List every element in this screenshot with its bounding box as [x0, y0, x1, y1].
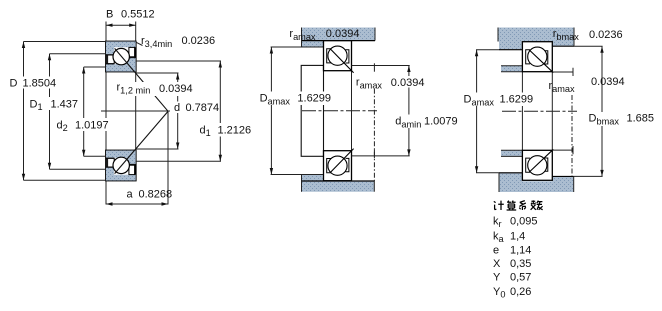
label plates middle — [257, 92, 332, 106]
dimension B — [106, 24, 136, 26]
ball (bottom section) — [113, 157, 129, 173]
svg-text:e: e — [493, 245, 499, 257]
svg-text:1.685: 1.685 — [627, 113, 655, 125]
svg-text:0,26: 0,26 — [510, 286, 531, 298]
svg-text:d: d — [174, 102, 180, 114]
dimension d2 — [84, 66, 106, 68]
centerline left view — [101, 110, 170, 112]
recess notch right (top section) — [129, 47, 135, 56]
label plates — [7, 77, 57, 89]
svg-text:1.6299: 1.6299 — [500, 94, 534, 106]
svg-text:0,35: 0,35 — [510, 258, 531, 270]
svg-text:D: D — [10, 78, 18, 90]
inner ring (top section) — [106, 58, 136, 72]
rb / ra ticks (right view) — [552, 71, 573, 73]
recess notch right (bottom section) — [129, 165, 135, 174]
svg-text:Y: Y — [493, 271, 501, 283]
top section outline — [106, 42, 136, 72]
housing band top — [302, 28, 376, 47]
ra leader (middle) — [373, 89, 375, 181]
header 计算系数 (drawn strokes) — [494, 200, 543, 210]
svg-text:0.8268: 0.8268 — [139, 189, 173, 201]
svg-text:0.5512: 0.5512 — [121, 9, 155, 21]
svg-text:0.7874: 0.7874 — [186, 102, 220, 114]
dimension Da max (right) — [476, 49, 522, 51]
shaft shoulder blocks (right view) — [501, 66, 522, 72]
bearing top section (middle) — [324, 41, 352, 71]
centerline middle view — [302, 110, 377, 112]
svg-text:1.8504: 1.8504 — [23, 78, 57, 90]
svg-text:0.0394: 0.0394 — [326, 28, 360, 40]
svg-text:1.0079: 1.0079 — [424, 116, 458, 128]
dimension D1 — [50, 53, 107, 55]
dimension Db max (right) — [574, 45, 603, 47]
ra fillet tick (middle) — [373, 63, 375, 71]
ball (top section) — [113, 48, 129, 64]
outer ring (top section) — [106, 42, 136, 55]
bore edge line right (between sections) — [351, 71, 353, 151]
svg-text:0.0236: 0.0236 — [589, 29, 623, 41]
bearing top section (right) — [522, 42, 552, 72]
svg-text:a: a — [127, 189, 134, 201]
dimension Da max (middle) — [271, 46, 323, 48]
svg-text:0.0236: 0.0236 — [182, 35, 216, 47]
dimension da min (middle) — [352, 65, 410, 67]
leader r34 — [136, 42, 142, 45]
svg-text:0.0394: 0.0394 — [159, 83, 193, 95]
svg-text:0.0394: 0.0394 — [591, 76, 625, 88]
svg-text:1.2126: 1.2126 — [218, 125, 252, 137]
dimension d1 — [136, 60, 221, 62]
dimension D — [24, 41, 107, 43]
bearing bottom section (middle) — [324, 151, 352, 181]
bore edge lines (right view) — [521, 72, 523, 151]
shoulder lines (top section) — [106, 55, 136, 64]
svg-text:X: X — [493, 258, 501, 270]
centerline right view — [502, 110, 577, 112]
svg-text:1.6299: 1.6299 — [297, 93, 331, 105]
recess notch left (top section) — [108, 55, 115, 64]
svg-text:0,095: 0,095 — [510, 216, 538, 228]
bottom section outline — [106, 151, 136, 181]
extension line left face vertical — [105, 22, 107, 205]
shaft shoulder outline box — [301, 65, 323, 156]
housing band bottom — [302, 175, 375, 192]
band bottom (right view) — [499, 173, 574, 192]
svg-text:0,57: 0,57 — [510, 271, 531, 283]
svg-text:1.0197: 1.0197 — [75, 120, 109, 132]
svg-text:1,14: 1,14 — [510, 245, 531, 257]
inner ring (bottom section) — [106, 151, 136, 165]
svg-text:1,4: 1,4 — [510, 230, 525, 242]
svg-text:B: B — [106, 9, 113, 21]
band top (right view) — [498, 28, 574, 50]
recess notch left (bottom section) — [108, 158, 115, 167]
svg-text:0.0394: 0.0394 — [391, 77, 425, 89]
label plates right — [461, 93, 535, 107]
dimension d — [136, 72, 179, 74]
extension line right face vertical — [135, 22, 137, 181]
shoulder lines (bottom section) — [106, 158, 136, 167]
outer ring (bottom section) — [106, 167, 136, 180]
ra leader (right view) — [571, 95, 573, 176]
dimension a — [167, 111, 169, 204]
bearing bottom section (right) — [522, 150, 552, 180]
contact angle line (bottom) — [115, 111, 168, 173]
svg-text:1.437: 1.437 — [51, 99, 79, 111]
contact angle line (top) — [115, 48, 168, 111]
